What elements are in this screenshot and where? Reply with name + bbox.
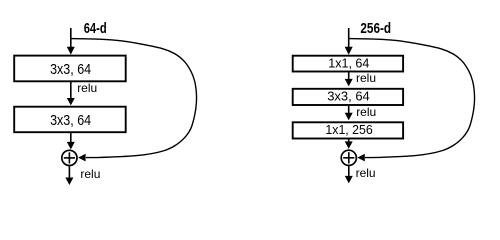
arrowhead into conv2 [67,98,75,105]
arrowhead into adder [67,142,75,150]
box conv3 1x1,256 [293,122,403,138]
svg-text:3x3, 64: 3x3, 64 [50,113,91,129]
adder plus vertical [348,152,350,163]
svg-text:64-d: 64-d [84,21,107,37]
adder plus horizontal [64,157,75,159]
right skip connection arc [349,39,474,158]
adder plus horizontal [343,157,354,159]
svg-text:256-d: 256-d [360,21,391,37]
output wire [68,166,70,178]
svg-text:relu: relu [356,105,376,119]
box conv1 3x3,64 [14,56,126,82]
wire conv2 to conv3 [348,106,350,113]
box conv1 1x1,64 [293,56,403,72]
output arrowhead [345,176,353,184]
arrowhead into adder [345,141,353,149]
adder circle [341,150,356,165]
svg-text:relu: relu [80,167,100,181]
wire conv1 to conv2 [70,82,72,99]
right skip arrowhead [357,154,365,162]
adder plus vertical [68,152,70,163]
wire conv1 to conv2 [348,72,350,79]
left skip arrowhead [78,154,86,162]
left block: input arrowhead [67,47,75,55]
svg-text:1x1, 64: 1x1, 64 [328,56,369,71]
arrowhead into conv3 [345,113,353,121]
box conv2 3x3,64 [14,107,126,133]
output wire [348,166,350,176]
svg-text:1x1, 256: 1x1, 256 [325,122,372,137]
wire conv3 to adder [348,139,350,142]
wire conv2 to adder [70,133,72,142]
svg-text:3x3, 64: 3x3, 64 [327,89,370,104]
left skip connection arc [71,39,196,158]
svg-text:relu: relu [77,81,97,95]
right block: input wire [348,28,350,48]
svg-text:relu: relu [356,71,376,85]
svg-text:relu: relu [356,166,376,180]
adder circle [62,150,77,165]
output arrowhead [65,178,73,186]
left block: input wire [70,28,72,48]
arrowhead into conv2 [345,79,353,87]
svg-text:3x3, 64: 3x3, 64 [50,62,91,78]
right block: input arrowhead [345,47,353,55]
box conv2 3x3,64 [293,89,403,105]
